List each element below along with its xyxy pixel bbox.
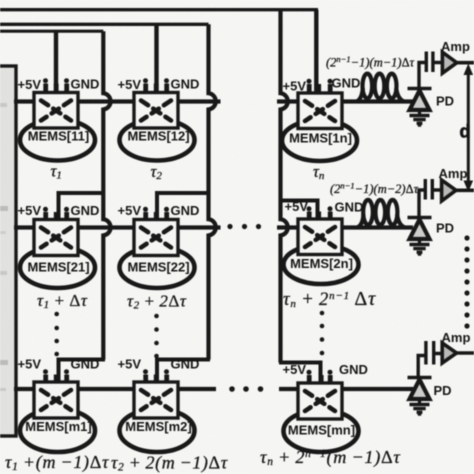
wire tap to MEMS[22] pin: [157, 193, 210, 222]
row 2 optical fiber line: [14, 225, 413, 229]
MEMS[22] switch cell: [120, 207, 195, 288]
ground row 1: [410, 110, 430, 127]
amplifier row m: [442, 343, 474, 363]
ground row 2: [410, 239, 430, 256]
ellipsis dots row 2: [227, 224, 261, 229]
fiber delay coil row 2: [358, 200, 405, 227]
photodiode PD row m: [408, 378, 432, 400]
wire bus A drop to MEMS[1n] pin: [314, 10, 318, 94]
fiber delay coil row 1: [357, 74, 404, 102]
bus A (top): [0, 8, 318, 11]
photodiode PD row 1: [408, 89, 432, 111]
bus B: [0, 23, 209, 26]
MEMS[1n] switch cell: [282, 79, 357, 161]
photodiode PD row 2: [408, 218, 432, 240]
MEMS[m2] switch cell: [120, 369, 195, 452]
amplifier row 1: [442, 52, 474, 73]
ellipsis dots output column: [464, 235, 469, 328]
ground row m: [410, 399, 430, 416]
MEMS[11] switch cell: [20, 78, 95, 160]
column 1 feed wire with hops: [103, 31, 110, 359]
amplifier row 2: [442, 180, 474, 201]
row m optical fiber line: [14, 387, 413, 391]
wire tap to MEMS[21] pin: [59, 193, 106, 222]
wire tap to MEMS[m2] pin: [157, 360, 210, 385]
dimension arrow d: [464, 64, 474, 193]
wire tap to MEMS[m1] pin: [59, 360, 106, 385]
wire tap to MEMS[2n] pin: [279, 201, 318, 223]
ellipsis dots column 1: [54, 312, 59, 357]
wire bus B drop to MEMS[12] pin: [154, 24, 158, 94]
splitter / input distribution box (left, clipped): [0, 66, 16, 436]
ellipsis dots column 2: [154, 314, 159, 359]
coupling capacitor row 2: [419, 179, 440, 216]
MEMS[21] switch cell: [20, 207, 95, 288]
coupling capacitor row m: [418, 341, 441, 376]
MEMS[m1] switch cell: [20, 369, 95, 452]
MEMS[mn] switch cell: [284, 370, 359, 452]
ellipsis dots column n: [320, 311, 325, 356]
wire bus C drop to MEMS[11] pin: [54, 31, 58, 94]
wire tap to MEMS[mn] pin: [279, 363, 321, 385]
row 1 optical fiber line: [14, 99, 413, 103]
MEMS[2n] switch cell: [284, 206, 359, 284]
column 2 feed wire with hops: [209, 24, 216, 359]
bus C: [0, 30, 103, 33]
column n feed wire with hops: [281, 10, 288, 363]
coupling capacitor row 1: [419, 52, 441, 88]
ellipsis dots row m: [229, 386, 263, 392]
paper grain overlay: [0, 0, 1, 1]
MEMS[12] switch cell: [120, 78, 195, 160]
